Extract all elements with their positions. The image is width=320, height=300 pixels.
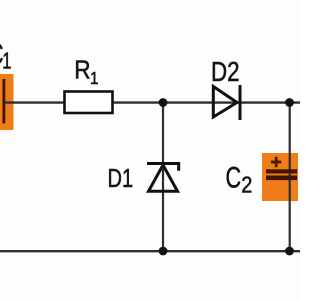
svg-text:1: 1 bbox=[2, 49, 11, 74]
svg-text:2: 2 bbox=[241, 171, 252, 198]
svg-text:R: R bbox=[74, 56, 90, 85]
svg-text:C: C bbox=[226, 160, 242, 194]
svg-text:1: 1 bbox=[90, 68, 99, 88]
svg-text:D2: D2 bbox=[211, 57, 240, 88]
svg-text:D1: D1 bbox=[108, 163, 134, 192]
